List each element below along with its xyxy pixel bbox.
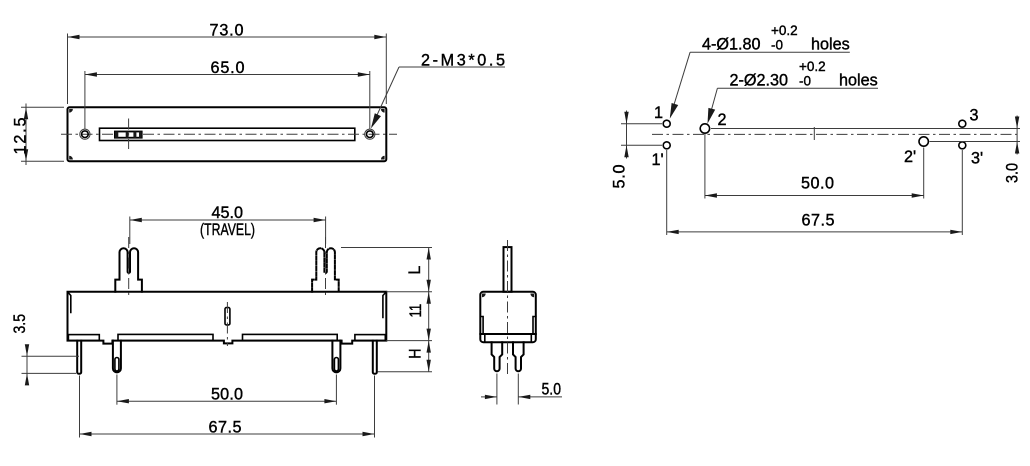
under-body bar B'	[243, 334, 338, 340]
under-body bar A	[68, 335, 99, 341]
side seam right	[533, 317, 536, 335]
right mounting hole M3	[365, 129, 375, 139]
dimension 45.0 travel	[129, 217, 131, 245]
right terminal pin	[332, 341, 340, 373]
knob vertical centerline	[128, 119, 130, 150]
knob top view	[115, 132, 142, 138]
front body outline	[68, 292, 387, 344]
top view body outline	[68, 107, 387, 161]
svg-text:-0: -0	[799, 74, 811, 89]
left knob (solid)	[115, 248, 142, 292]
svg-text:3.0: 3.0	[1004, 163, 1022, 183]
center vertical centerline	[226, 302, 228, 346]
hole 3	[959, 120, 966, 127]
right knob (dashed phantom)	[312, 248, 339, 292]
pcb center tick	[813, 127, 815, 140]
svg-text:2: 2	[718, 111, 727, 129]
svg-text:H: H	[407, 348, 425, 358]
svg-text:67.5: 67.5	[209, 418, 242, 436]
svg-text:5.0: 5.0	[611, 165, 629, 189]
svg-text:+0.2: +0.2	[771, 23, 798, 38]
svg-text:+0.2: +0.2	[799, 59, 826, 74]
svg-text:4-Ø1.80: 4-Ø1.80	[702, 35, 761, 53]
dimension L	[341, 247, 432, 249]
hole 1'	[663, 142, 670, 149]
flange inner tick right	[530, 334, 532, 342]
svg-text:3: 3	[970, 107, 979, 125]
dimension 65.0	[84, 71, 86, 129]
flange inner tick left	[484, 334, 486, 342]
svg-text:(TRAVEL): (TRAVEL)	[200, 221, 255, 239]
side corner mark right	[530, 294, 534, 298]
leader 4-dia1.80 holes	[690, 51, 850, 53]
svg-text:-0: -0	[771, 37, 783, 52]
FRONT VIEW GROUP	[11, 204, 432, 437]
hole 1	[663, 120, 670, 127]
svg-text:5.0: 5.0	[542, 381, 562, 399]
PCB VIEW GROUP	[611, 23, 1022, 235]
svg-text:3': 3'	[971, 150, 983, 168]
SIDE VIEW GROUP	[480, 240, 562, 405]
side body flange line	[480, 333, 536, 335]
svg-text:3.5: 3.5	[11, 314, 29, 334]
slot	[100, 128, 355, 140]
dimension 3.0 (pcb)	[711, 128, 1020, 130]
horizontal centerline	[61, 133, 397, 135]
svg-text:12.5: 12.5	[12, 118, 30, 155]
side pin back row	[513, 342, 524, 371]
svg-text:2-M3*0.5: 2-M3*0.5	[421, 52, 505, 70]
hole 2'	[919, 137, 928, 146]
side corner mark left	[482, 294, 486, 298]
svg-text:1: 1	[654, 104, 663, 122]
side stem	[504, 247, 512, 292]
dimension 50.0 (pcb)	[704, 134, 706, 199]
right knob centerline	[325, 237, 327, 296]
side seam left	[480, 317, 483, 335]
left pin inner slot	[115, 358, 119, 372]
svg-text:2': 2'	[904, 148, 916, 166]
svg-text:holes: holes	[839, 72, 878, 90]
dimension 3.5	[22, 355, 80, 357]
dimension 5.0 (pcb)	[621, 123, 662, 125]
left knob centerline	[128, 237, 130, 296]
TOP VIEW GROUP	[12, 21, 506, 165]
under-body bar B	[118, 334, 213, 340]
left mounting hole M3	[80, 129, 90, 139]
corner chamfer mark top-left	[69, 109, 73, 113]
leader 2-dia2.30 holes	[717, 87, 878, 89]
dimension 67.5 (front)	[79, 376, 81, 438]
side pin front row	[492, 342, 503, 371]
dimension H	[378, 371, 433, 373]
dimension 11	[386, 340, 432, 342]
svg-text:1': 1'	[652, 151, 664, 169]
svg-text:65.0: 65.0	[211, 59, 245, 77]
dimension 67.5 (pcb)	[666, 150, 668, 235]
corner chamfer mark bottom-left	[69, 156, 73, 160]
side body outline	[480, 292, 536, 342]
pcb centerline	[652, 133, 1021, 135]
side centerline	[507, 240, 509, 377]
svg-text:L: L	[406, 266, 424, 275]
svg-text:73.0: 73.0	[210, 21, 244, 39]
corner chamfer mark top-right	[381, 109, 385, 113]
dimension 73.0	[67, 34, 69, 105]
right pin inner slot	[334, 358, 338, 372]
svg-text:45.0: 45.0	[212, 204, 244, 222]
left terminal pin	[113, 341, 121, 373]
corner chamfer mark bottom-right	[381, 156, 385, 160]
svg-text:67.5: 67.5	[802, 212, 835, 230]
svg-text:50.0: 50.0	[211, 386, 243, 404]
svg-text:holes: holes	[811, 35, 850, 53]
hole 3'	[959, 142, 966, 149]
dimension 50.0 (front)	[116, 375, 118, 405]
right mounting foot	[373, 341, 377, 374]
leader 2-M3*0.5	[399, 66, 505, 68]
right case seam	[383, 293, 386, 318]
svg-text:11: 11	[407, 304, 425, 318]
svg-text:50.0: 50.0	[801, 175, 834, 193]
under-body bar A'	[355, 335, 385, 341]
center detent slot	[225, 308, 230, 325]
svg-text:2-Ø2.30: 2-Ø2.30	[730, 72, 789, 90]
hole 2	[700, 124, 709, 133]
dimension 12.5	[21, 106, 64, 108]
left mounting foot	[77, 341, 81, 374]
left case seam	[68, 293, 71, 313]
dimension 5.0 (side)	[496, 374, 498, 405]
